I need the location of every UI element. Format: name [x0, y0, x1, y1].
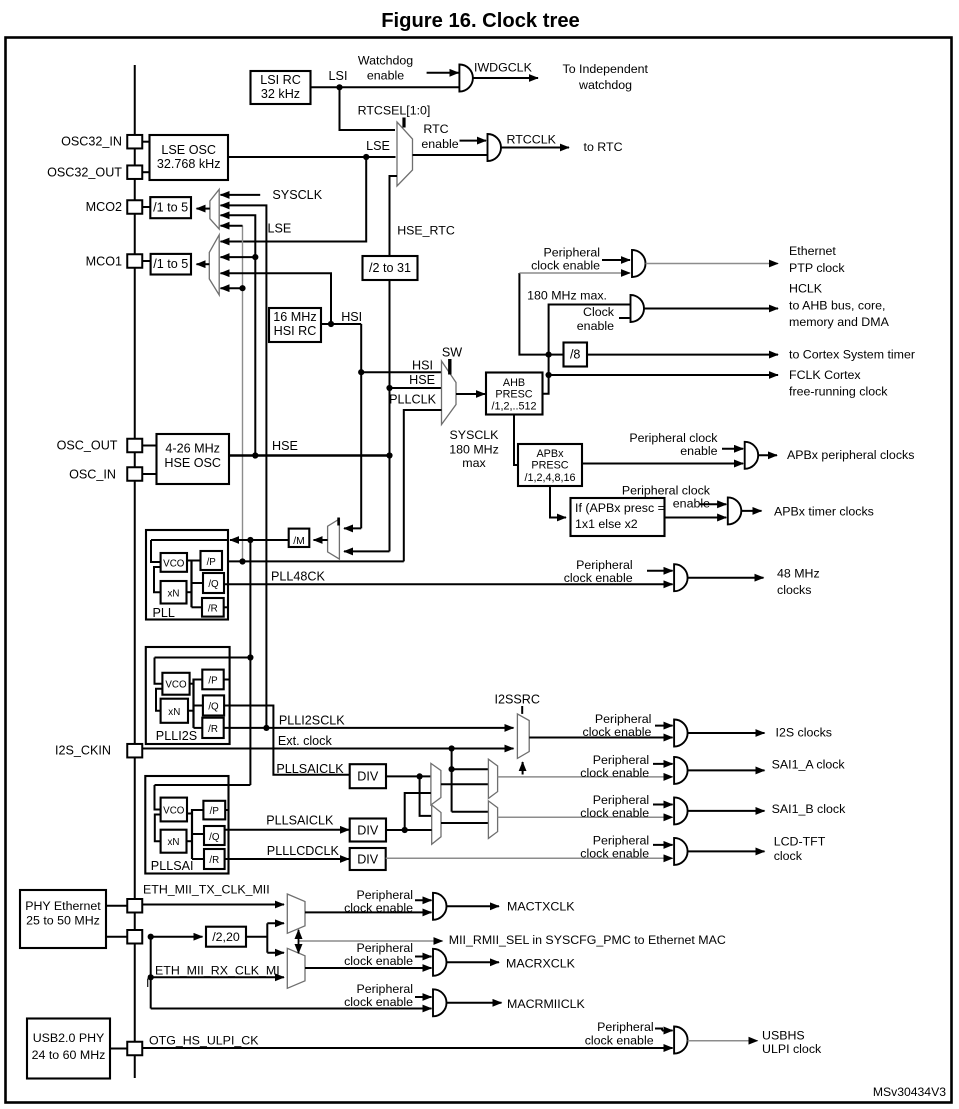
- svg-text:PLL: PLL: [153, 606, 175, 620]
- svg-text:/8: /8: [570, 348, 581, 362]
- svg-text:clock enable: clock enable: [583, 725, 652, 739]
- svg-text:max: max: [462, 456, 486, 470]
- svg-text:LSE: LSE: [268, 222, 292, 236]
- svg-text:MACRMIICLK: MACRMIICLK: [507, 997, 586, 1011]
- svg-text:VCO: VCO: [163, 806, 185, 817]
- svg-text:16 MHz: 16 MHz: [273, 310, 316, 324]
- svg-text:4-26 MHz: 4-26 MHz: [165, 442, 220, 456]
- svg-text:LSI RC: LSI RC: [260, 73, 301, 87]
- svg-text:SYSCLK: SYSCLK: [272, 188, 322, 202]
- svg-text:ETH_MII_RX_CLK_MI: ETH_MII_RX_CLK_MI: [155, 964, 280, 978]
- svg-text:to AHB bus, core,: to AHB bus, core,: [789, 299, 885, 313]
- svg-text:enable: enable: [577, 319, 614, 333]
- svg-text:ULPI clock: ULPI clock: [762, 1042, 822, 1056]
- svg-text:/1,2,4,8,16: /1,2,4,8,16: [524, 472, 575, 484]
- svg-text:clock enable: clock enable: [344, 995, 413, 1009]
- svg-text:MII_RMII_SEL in SYSCFG_PMC to: MII_RMII_SEL in SYSCFG_PMC to Ethernet M…: [449, 933, 726, 947]
- svg-text:48 MHz: 48 MHz: [777, 567, 820, 581]
- svg-text:watchdog: watchdog: [578, 78, 632, 92]
- svg-text:clock enable: clock enable: [580, 766, 649, 780]
- svg-text:I2S_CKIN: I2S_CKIN: [55, 744, 111, 758]
- svg-text:DIV: DIV: [357, 853, 379, 867]
- svg-text:25 to 50 MHz: 25 to 50 MHz: [26, 914, 100, 928]
- svg-text:PRESC: PRESC: [531, 460, 568, 472]
- svg-text:APBx peripheral clocks: APBx peripheral clocks: [787, 448, 914, 462]
- svg-text:/1,2,..512: /1,2,..512: [491, 401, 536, 413]
- svg-text:Peripheral: Peripheral: [357, 982, 413, 996]
- svg-text:HSE OSC: HSE OSC: [164, 456, 221, 470]
- svg-text:MCO1: MCO1: [86, 255, 122, 269]
- svg-text:to RTC: to RTC: [584, 140, 623, 154]
- svg-text:RTC: RTC: [423, 122, 448, 136]
- svg-text:LSE OSC: LSE OSC: [161, 143, 216, 157]
- svg-text:OSC32_IN: OSC32_IN: [61, 135, 122, 149]
- svg-text:/2 to 31: /2 to 31: [369, 261, 411, 275]
- svg-text:LCD-TFT: LCD-TFT: [774, 835, 826, 849]
- svg-text:/1 to 5: /1 to 5: [153, 257, 188, 271]
- svg-text:clock enable: clock enable: [585, 1034, 654, 1048]
- svg-text:SW: SW: [442, 346, 462, 360]
- svg-text:1x1 else x2: 1x1 else x2: [575, 517, 638, 531]
- svg-text:32.768 kHz: 32.768 kHz: [157, 157, 221, 171]
- svg-text:SYSCLK: SYSCLK: [450, 428, 500, 442]
- svg-text:/2,20: /2,20: [212, 930, 240, 944]
- svg-text:DIV: DIV: [357, 824, 379, 838]
- svg-text:clock enable: clock enable: [580, 806, 649, 820]
- svg-text:Peripheral: Peripheral: [576, 558, 632, 572]
- svg-text:PLL48CK: PLL48CK: [271, 570, 326, 584]
- svg-text:Ethernet: Ethernet: [789, 244, 836, 258]
- svg-text:Peripheral: Peripheral: [593, 793, 649, 807]
- svg-text:MACRXCLK: MACRXCLK: [506, 957, 576, 971]
- svg-text:/Q: /Q: [208, 579, 219, 590]
- svg-text:Figure 16. Clock tree: Figure 16. Clock tree: [381, 10, 580, 32]
- svg-text:OSC_OUT: OSC_OUT: [57, 439, 118, 453]
- svg-text:clock enable: clock enable: [580, 847, 649, 861]
- svg-text:To Independent: To Independent: [563, 62, 649, 76]
- svg-text:PLLI2SCLK: PLLI2SCLK: [279, 714, 345, 728]
- svg-text:FCLK Cortex: FCLK Cortex: [789, 368, 861, 382]
- svg-text:HSE: HSE: [409, 373, 435, 387]
- svg-text:free-running clock: free-running clock: [789, 385, 888, 399]
- svg-text:ETH_MII_TX_CLK_MII: ETH_MII_TX_CLK_MII: [143, 883, 270, 897]
- svg-text:HCLK: HCLK: [789, 282, 823, 296]
- svg-text:180 MHz: 180 MHz: [449, 443, 499, 457]
- svg-text:AHB: AHB: [503, 377, 525, 389]
- svg-text:clock enable: clock enable: [564, 571, 633, 585]
- svg-text:clock enable: clock enable: [344, 954, 413, 968]
- svg-text:PLLSAICLK: PLLSAICLK: [266, 814, 334, 828]
- svg-text:/R: /R: [209, 855, 219, 866]
- svg-text:USB2.0 PHY: USB2.0 PHY: [33, 1031, 105, 1045]
- svg-text:HSI RC: HSI RC: [274, 324, 317, 338]
- svg-text:32 kHz: 32 kHz: [261, 87, 300, 101]
- svg-text:RTCSEL[1:0]: RTCSEL[1:0]: [358, 104, 431, 118]
- svg-text:I2SSRC: I2SSRC: [495, 693, 541, 707]
- svg-text:Peripheral clock: Peripheral clock: [622, 484, 711, 498]
- svg-text:PLLSAI: PLLSAI: [151, 859, 194, 873]
- svg-text:Peripheral: Peripheral: [593, 834, 649, 848]
- svg-text:/1 to 5: /1 to 5: [153, 201, 188, 215]
- svg-text:RTCCLK: RTCCLK: [507, 133, 557, 147]
- svg-text:Peripheral: Peripheral: [357, 941, 413, 955]
- svg-text:enable: enable: [367, 69, 404, 83]
- svg-text:OSC_IN: OSC_IN: [69, 468, 116, 482]
- svg-text:enable: enable: [673, 497, 710, 511]
- svg-text:/Q: /Q: [209, 832, 220, 843]
- svg-text:MCO2: MCO2: [86, 200, 122, 214]
- svg-text:DIV: DIV: [357, 770, 379, 784]
- svg-text:Watchdog: Watchdog: [358, 54, 413, 68]
- svg-text:clock enable: clock enable: [344, 901, 413, 915]
- svg-text:PTP clock: PTP clock: [789, 261, 845, 275]
- svg-text:PHY Ethernet: PHY Ethernet: [25, 899, 101, 913]
- svg-text:/P: /P: [207, 557, 217, 568]
- svg-text:VCO: VCO: [165, 680, 187, 691]
- svg-text:I2S clocks: I2S clocks: [776, 726, 832, 740]
- svg-text:/P: /P: [210, 806, 220, 817]
- svg-text:SAI1_A clock: SAI1_A clock: [772, 758, 846, 772]
- svg-text:Peripheral: Peripheral: [597, 1020, 653, 1034]
- svg-text:USBHS: USBHS: [762, 1029, 805, 1043]
- svg-text:SAI1_B clock: SAI1_B clock: [772, 802, 846, 816]
- svg-text:HSE: HSE: [272, 439, 298, 453]
- svg-text:Peripheral: Peripheral: [595, 712, 651, 726]
- svg-text:APBx timer clocks: APBx timer clocks: [774, 504, 874, 518]
- svg-text:LSI: LSI: [329, 69, 348, 83]
- svg-text:OTG_HS_ULPI_CK: OTG_HS_ULPI_CK: [149, 1034, 259, 1048]
- svg-text:VCO: VCO: [163, 559, 185, 570]
- svg-text:MSv30434V3: MSv30434V3: [873, 1085, 946, 1099]
- svg-text:xN: xN: [168, 707, 180, 718]
- svg-text:HSI: HSI: [412, 359, 433, 373]
- svg-text:Ext. clock: Ext. clock: [278, 734, 333, 748]
- svg-text:PLLCLK: PLLCLK: [389, 393, 437, 407]
- svg-text:to Cortex System timer: to Cortex System timer: [789, 348, 915, 362]
- svg-text:xN: xN: [168, 837, 180, 848]
- svg-text:24 to 60 MHz: 24 to 60 MHz: [32, 1048, 106, 1062]
- svg-text:clock: clock: [774, 849, 803, 863]
- svg-text:IWDGCLK: IWDGCLK: [474, 61, 533, 75]
- svg-text:memory and DMA: memory and DMA: [789, 315, 890, 329]
- svg-text:PLLI2S: PLLI2S: [156, 729, 197, 743]
- svg-text:180 MHz max.: 180 MHz max.: [527, 289, 607, 303]
- svg-text:HSI: HSI: [341, 310, 362, 324]
- svg-text:OSC32_OUT: OSC32_OUT: [47, 166, 122, 180]
- svg-text:Peripheral: Peripheral: [357, 888, 413, 902]
- svg-text:/R: /R: [208, 724, 218, 735]
- svg-text:clock enable: clock enable: [531, 259, 600, 273]
- svg-text:xN: xN: [168, 589, 180, 600]
- svg-text:PLLLCDCLK: PLLLCDCLK: [267, 844, 340, 858]
- svg-text:PRESC: PRESC: [495, 389, 532, 401]
- svg-text:Peripheral: Peripheral: [544, 246, 600, 260]
- svg-text:If (APBx presc =: If (APBx presc =: [575, 501, 665, 515]
- svg-text:PLLSAICLK: PLLSAICLK: [276, 762, 344, 776]
- svg-text:APBx: APBx: [536, 448, 564, 460]
- svg-text:/M: /M: [293, 536, 305, 547]
- svg-text:enable: enable: [680, 444, 717, 458]
- svg-text:enable: enable: [421, 137, 458, 151]
- svg-text:clocks: clocks: [777, 583, 811, 597]
- svg-text:LSE: LSE: [366, 139, 390, 153]
- svg-text:/R: /R: [208, 604, 218, 615]
- svg-text:/P: /P: [208, 676, 218, 687]
- svg-text:Clock: Clock: [583, 305, 615, 319]
- svg-text:I: I: [146, 976, 149, 990]
- svg-text:MACTXCLK: MACTXCLK: [507, 900, 575, 914]
- svg-text:Peripheral clock: Peripheral clock: [629, 431, 718, 445]
- svg-text:Peripheral: Peripheral: [593, 753, 649, 767]
- svg-text:/Q: /Q: [208, 702, 219, 713]
- svg-text:HSE_RTC: HSE_RTC: [397, 224, 455, 238]
